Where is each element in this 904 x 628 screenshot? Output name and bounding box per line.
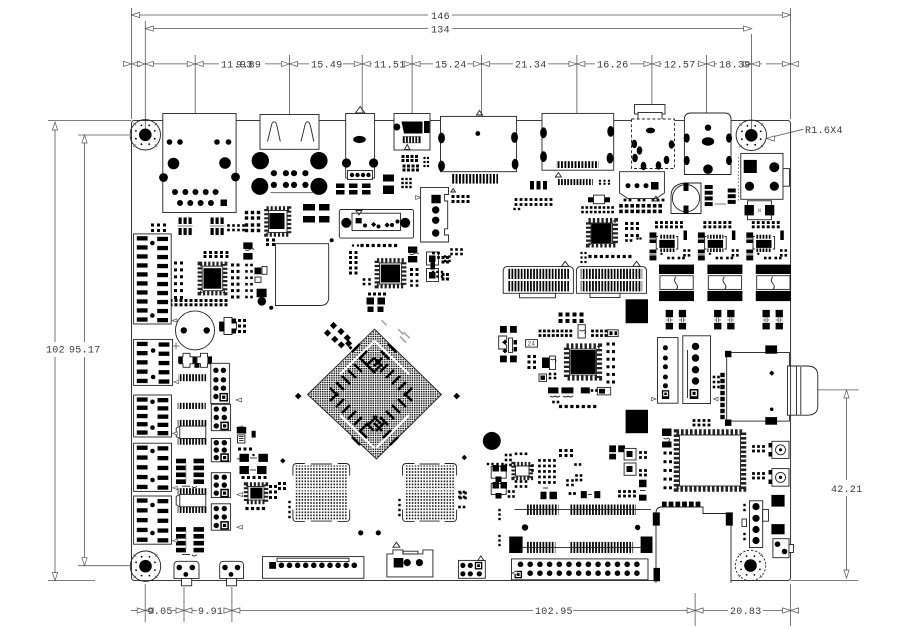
inductor L1 with pads <box>659 265 694 302</box>
svg-text:11.51: 11.51 <box>374 61 406 72</box>
svg-text:20.83: 20.83 <box>730 607 762 618</box>
connector CN6 vertical 5pin <box>652 338 679 404</box>
buzzer BZ1 <box>173 311 215 350</box>
mounting hole top-right <box>736 120 766 150</box>
mounting dots between rows <box>522 524 641 530</box>
dim 95.17 vertical line <box>82 135 87 566</box>
bits left edge center region <box>431 252 451 278</box>
bottom dots group 2 <box>716 257 734 260</box>
parts left of U4 <box>349 251 371 285</box>
dim text 18.39 <box>719 61 751 72</box>
ic U6 QFP center <box>567 346 600 378</box>
diamond pad left <box>295 393 302 400</box>
dim 134 horizontal line <box>145 26 751 31</box>
regulator U10 below power jack <box>745 201 775 220</box>
resistor quad R-block <box>303 204 330 223</box>
svg-text:12.57: 12.57 <box>664 61 696 72</box>
svg-text:R1.6X4: R1.6X4 <box>805 126 843 137</box>
dim text 95.17 <box>69 346 101 357</box>
mounting hole bottom-left <box>130 551 160 581</box>
svg-text:9.05: 9.05 <box>148 607 173 618</box>
resistor R2v <box>732 231 736 241</box>
ic U16 SOP <box>176 488 207 513</box>
diamond pad right <box>453 393 460 400</box>
dim text 102 <box>46 346 65 357</box>
dot columns left of U3 <box>174 262 183 300</box>
connector J22 power 3pin <box>387 542 433 577</box>
switch SW1 cluster <box>499 326 517 362</box>
dim text 9.05 <box>148 607 173 618</box>
resistor array RA1 <box>178 218 193 236</box>
capacitor stack group 2 <box>698 232 705 260</box>
ic U5 black <box>626 299 648 323</box>
connector J4 HDMI <box>393 114 430 151</box>
svg-text:16.26: 16.26 <box>597 61 629 72</box>
dots 2x2 x460 <box>459 492 467 500</box>
dots pair x509 <box>508 490 515 498</box>
checker cluster below J13 <box>619 204 662 213</box>
dots x450 <box>450 248 463 255</box>
dots row x228 <box>227 224 245 231</box>
trapezoid connector J13 <box>620 172 665 201</box>
capacitor stack group 3 <box>746 232 753 260</box>
ic U4 QFN <box>377 261 404 287</box>
inductor L3 with pads <box>756 265 791 302</box>
parts cluster dots x151 <box>151 224 166 233</box>
part B1 <box>608 330 619 337</box>
capacitor quad group 1 <box>666 310 686 330</box>
connector J8 audio jack <box>684 113 732 175</box>
capacitor stack group 1 <box>650 232 657 260</box>
crystal Y2 with pads <box>588 195 610 204</box>
parts left of J29 <box>752 445 765 452</box>
ic U8 QFP <box>677 432 744 489</box>
coax connector J30 <box>769 469 790 487</box>
bottom dots group 3 <box>764 257 782 260</box>
crystal Y1 cross part <box>220 317 237 334</box>
dim text 134 <box>431 25 450 36</box>
right extension lines <box>791 390 859 581</box>
dots pair group 2 <box>732 249 739 256</box>
resistor array RA2 <box>210 218 225 236</box>
ic U21 QFN <box>589 221 616 246</box>
pad pairs y470 <box>240 466 267 474</box>
small parts right of J4 <box>402 155 430 172</box>
connector J11 FPC <box>503 261 573 298</box>
cluster below J5 bars <box>513 181 552 210</box>
parts right of dot columns <box>255 267 268 298</box>
dots below 24 <box>528 355 537 369</box>
connector CN4 left <box>134 443 178 491</box>
ic U11 SOIC <box>705 185 736 206</box>
via dot 2 <box>269 306 273 310</box>
ic U9 QFN <box>246 485 266 503</box>
resistor pack RP2 <box>176 527 204 556</box>
connector CN3 left <box>134 395 178 437</box>
regulator U14 SOP <box>753 235 775 255</box>
dots left of D2 <box>398 499 400 516</box>
dot pairs left of U8 <box>664 452 673 490</box>
dots row y477 <box>242 476 267 479</box>
dots above FPC <box>580 252 631 263</box>
via dots below bga <box>358 530 381 535</box>
capacitor bank top middle <box>336 175 394 195</box>
ic U15 SOP <box>176 420 207 445</box>
dim text 11.51 <box>374 61 406 72</box>
dim text 20.83 <box>730 607 762 618</box>
dim 42.21 vertical line <box>844 390 849 578</box>
dim text 12.57 <box>664 61 696 72</box>
bits left of J27 <box>742 504 747 540</box>
connector J12 FPC <box>576 261 646 297</box>
via dot <box>330 238 334 242</box>
connector J24 26pin <box>512 559 649 580</box>
dots below sd pins <box>693 419 711 426</box>
dots cluster right of U21 <box>625 222 642 242</box>
leader R1.6X4 <box>767 129 804 141</box>
segment dim line <box>124 61 799 66</box>
svg-text:15.24: 15.24 <box>435 61 467 72</box>
comb pin row left <box>178 374 206 381</box>
part with 24 label <box>526 340 538 348</box>
connector J7 USB-C <box>632 105 675 171</box>
row of caps below U8 <box>662 502 700 509</box>
connector J2 dual USB <box>251 115 327 195</box>
left extension lines <box>48 120 132 580</box>
svg-text:9.91: 9.91 <box>198 607 223 618</box>
dots right of D2 <box>458 491 465 509</box>
dots pair group 3 <box>780 249 787 256</box>
dots pair group 1 <box>683 249 690 256</box>
dim text 15.24 <box>435 61 467 72</box>
dots above U4 <box>352 244 397 247</box>
diamond pad D3 <box>280 458 285 463</box>
part cluster R/C left of X1 <box>243 242 254 259</box>
inductor L2 with pads <box>707 265 742 302</box>
regulator U13 SOP <box>705 235 727 255</box>
connector J9 DC power jack <box>738 153 789 200</box>
regulator group 2 dots <box>703 221 731 228</box>
dot grid right of U17 <box>538 459 556 484</box>
connector J21 10pin <box>263 557 364 579</box>
dots x575 <box>574 463 582 481</box>
dim text 146 <box>431 12 450 23</box>
parts above U6 <box>559 313 586 339</box>
capacitor quad group 2 <box>714 310 734 330</box>
regulator group 1 dots <box>655 221 683 228</box>
svg-text:95.17: 95.17 <box>69 346 101 357</box>
header J10 4pin <box>416 187 449 242</box>
header J16 2x3 <box>211 439 242 462</box>
resistor pack RP1 <box>176 459 204 488</box>
parts left of U8 <box>662 429 672 448</box>
svg-text:24: 24 <box>528 341 536 348</box>
dots x560 y453 <box>559 449 573 457</box>
sd slot J26 <box>653 507 733 583</box>
dots row y449 <box>238 448 252 451</box>
connector CN7 vertical 5pin <box>683 336 718 404</box>
header J17 2x3 <box>211 473 242 498</box>
connector CN5 left <box>134 496 178 544</box>
connector J27 4pin vertical <box>750 501 763 548</box>
svg-text:42.21: 42.21 <box>831 485 863 496</box>
resistor R3v <box>780 231 784 241</box>
svg-text:21.34: 21.34 <box>515 61 547 72</box>
dots rows below Y2 <box>581 206 614 213</box>
part black x542 <box>542 358 550 369</box>
ddr D2 bga field <box>403 464 457 522</box>
comb row x178 <box>178 403 206 409</box>
microsd J25 with pads <box>725 345 789 426</box>
regulator group 3 dots <box>752 221 780 228</box>
av jack J33 barrel <box>788 366 818 415</box>
dot pairs right of U6 <box>607 343 616 384</box>
dots row bottom of U6 area <box>552 401 596 408</box>
via circle big <box>483 432 501 450</box>
capacitor quad group 3 <box>763 310 783 330</box>
header J18 2x3 <box>211 504 242 530</box>
part squiggle x548 <box>550 356 557 370</box>
diamond pad D4 <box>462 455 467 460</box>
diamond cluster caps <box>324 322 353 350</box>
dim text 42.21 <box>831 485 863 496</box>
parts left of J30 <box>752 472 765 479</box>
svg-text:15.49: 15.49 <box>311 61 343 72</box>
connector J1 RJ45 <box>159 114 240 213</box>
dim text 21.34 <box>515 61 547 72</box>
dots rows left above U6 <box>539 330 573 337</box>
sd pin column <box>713 373 725 419</box>
transistor circle Q1 <box>258 297 267 306</box>
fiducial gray marks <box>382 320 410 342</box>
dots right of Y1 <box>238 319 246 333</box>
dim 146 horizontal line <box>132 12 791 17</box>
header J15 2x3 <box>211 404 242 430</box>
dim text 11.93/9.89 overlapped <box>221 61 261 72</box>
dots below U2 <box>266 239 275 247</box>
connector J28 2pin <box>773 539 794 558</box>
svg-text:N: N <box>758 207 762 214</box>
bga U20 diamond <box>308 329 442 459</box>
row below U6 <box>548 387 611 397</box>
triangle mark above J5 <box>477 110 483 115</box>
parts left of U17 <box>487 454 512 499</box>
connector CN2 left <box>134 339 179 385</box>
board-to-board connector row2 <box>509 537 652 554</box>
dim text 16.26 <box>597 61 629 72</box>
dots right of U9 <box>269 482 286 499</box>
mounting hole top-left <box>130 120 160 150</box>
connector J6 LVDS2 <box>540 113 614 170</box>
board-to-board connector row1 <box>515 505 652 516</box>
dim text 9.91 <box>198 607 223 618</box>
paired dots row below J13 <box>624 199 665 202</box>
dots below U9 <box>245 507 265 510</box>
bottom extension lines <box>145 584 790 626</box>
part outline x539 <box>539 374 547 381</box>
ic U3 QFN <box>200 264 225 293</box>
bottom dim line <box>131 608 799 613</box>
svg-text:9.89: 9.89 <box>236 61 261 72</box>
connector J19 2pin <box>174 561 199 586</box>
header J23 2x3 <box>458 556 485 578</box>
bottom dots group 1 <box>667 257 685 260</box>
mounting hole bottom-right <box>735 550 765 580</box>
pads right of J27 <box>763 495 785 534</box>
dim text 102.95 <box>535 607 573 618</box>
tiny bits left of b2b <box>498 509 500 546</box>
regulator U12 SOP <box>656 235 678 255</box>
pad pairs y457 <box>240 454 268 462</box>
svg-text:134: 134 <box>431 25 450 36</box>
capacitor C1 electrolytic <box>671 183 701 214</box>
small parts cluster x401 <box>401 178 411 188</box>
connector J32 SPDIF <box>339 210 413 239</box>
ic U2 QFN <box>267 209 290 235</box>
connector J5 LVDS <box>438 116 518 183</box>
cluster U18 area <box>609 445 647 500</box>
dots left of D1 <box>288 501 290 518</box>
dot columns mid-left <box>231 264 253 299</box>
parts left of U2 <box>245 211 260 232</box>
svg-text:146: 146 <box>431 12 450 23</box>
svg-text:102: 102 <box>46 346 65 357</box>
coax connector J29 <box>769 441 790 458</box>
ic U17 QFN small <box>514 453 534 488</box>
board outline <box>132 120 791 580</box>
top extension lines <box>132 8 791 172</box>
squares below U4 <box>367 293 387 313</box>
dots above U3 <box>204 251 229 258</box>
connector J20 2pin <box>220 561 244 586</box>
ic U7 black square <box>626 410 648 433</box>
parts x427 outline parts <box>427 252 450 282</box>
connector J3 mini-USB <box>342 107 378 180</box>
part cluster x237 y427 <box>237 427 256 443</box>
pin field below J6 <box>555 173 610 186</box>
connector CN1 left <box>134 234 177 324</box>
text R1.6X4 <box>805 126 843 137</box>
dots x567 y481 <box>566 479 574 486</box>
dots right above U6 <box>591 330 607 337</box>
svg-text:102.95: 102.95 <box>535 607 573 618</box>
dots x548 low <box>549 373 557 380</box>
caps row y494 <box>541 488 636 499</box>
parts right of U4 <box>408 247 419 287</box>
resistor R1v <box>684 231 688 241</box>
ddr D1 bga field <box>293 464 350 522</box>
dots right of J10 <box>452 195 470 203</box>
dim 102 vertical line <box>52 122 57 581</box>
svg-text:18.39: 18.39 <box>719 61 751 72</box>
dim text 15.49 <box>311 61 343 72</box>
header J14 2x4 <box>211 363 242 403</box>
cap pair CP1 <box>178 353 212 368</box>
crystal X1 white box <box>276 244 329 306</box>
triangle mark right of comb <box>451 189 455 192</box>
dots below U3 <box>170 299 228 306</box>
